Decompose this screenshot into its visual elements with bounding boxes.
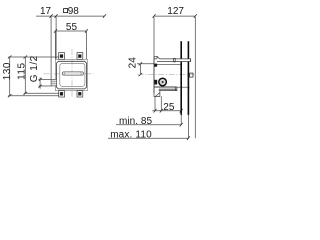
extension line 127 right long (194, 17, 196, 138)
dimension 127 line (154, 15, 195, 17)
svg-text:55: 55 (66, 22, 78, 33)
dimension min85 line (116, 124, 181, 126)
tick min85 right (180, 123, 183, 127)
tab bottom-right inner (78, 92, 81, 95)
tab top-right inner (78, 54, 81, 57)
extension line top shared (8, 56, 59, 58)
extension line frame left (54, 31, 56, 59)
tick 55 right (85, 29, 88, 33)
svg-text:25: 25 (163, 102, 175, 113)
extension line hex top (39, 78, 52, 80)
svg-text:115: 115 (17, 62, 28, 79)
hex connector G half (51, 79, 57, 86)
dimension chain 17 / sq98 line (36, 15, 105, 17)
top port boss lower edge (157, 64, 181, 66)
extension line 24 top port (137, 63, 154, 65)
tick 98 right (103, 14, 106, 18)
body box chamfered (57, 61, 87, 89)
top port tube through wall (157, 56, 191, 62)
tab bottom-right outer (77, 91, 83, 97)
svg-text:127: 127 (167, 6, 184, 17)
tick 17 left hex tip (50, 14, 53, 18)
dimension 25 line (152, 110, 181, 112)
tick max110 right (187, 136, 190, 140)
tab bottom-left outer (59, 91, 65, 97)
hex flat edge 1 (51, 81, 57, 83)
dimension 130 line (9, 57, 11, 96)
dimension 55 line (55, 30, 86, 32)
tick 127 left (153, 14, 156, 18)
foot wedge (155, 93, 160, 97)
G tick top (39, 78, 42, 81)
tick 25 left (160, 109, 163, 113)
svg-text:130: 130 (2, 62, 13, 80)
knob screw on plate (190, 73, 193, 77)
svg-text:24: 24 (128, 57, 139, 69)
extension wall A down (180, 115, 182, 125)
G tick bottom (39, 85, 42, 88)
svg-text:17: 17 (40, 6, 52, 17)
screw head circle (159, 78, 167, 86)
wall line B plate (187, 41, 189, 115)
svg-text:G 1/2: G 1/2 (29, 55, 40, 82)
extension line 127 left to body (153, 17, 155, 56)
extension wall B down (187, 115, 189, 138)
dimension max110 line (108, 137, 188, 139)
tick 130 top (8, 56, 12, 59)
svg-text:max. 110: max. 110 (110, 130, 152, 141)
tick 115 bottom (24, 92, 28, 95)
tick 115 top (24, 56, 28, 59)
front view valve assembly (51, 53, 87, 97)
bottom port end cap (175, 87, 177, 91)
centerline vertical front view (71, 49, 73, 98)
bottom port tube top edge (154, 86, 177, 88)
face black lug lower (154, 80, 157, 85)
tab top-left outer (59, 53, 65, 60)
face black lug upper (154, 64, 157, 67)
body front face (153, 56, 155, 92)
foot profile (154, 91, 160, 97)
extension line chain to frame left (55, 17, 57, 59)
top stub step (154, 56, 157, 59)
dimension 24 line (139, 64, 141, 75)
hex flat edge 2 (51, 83, 57, 85)
body inner rounded square (60, 63, 85, 86)
svg-text:min. 85: min. 85 (119, 116, 153, 127)
G thread dim line (39, 78, 41, 89)
extension line 25 from face (154, 97, 156, 111)
wall line A (180, 41, 182, 115)
tab bottom-left inner (60, 92, 63, 95)
slot end tick right (80, 72, 82, 75)
tab top-right outer (77, 53, 83, 60)
tick 17 right 98 left shared (55, 14, 58, 18)
extension line chain to hex tip (50, 17, 52, 79)
frame outer rect (55, 59, 87, 90)
centerline horizontal front view (44, 73, 94, 75)
svg-text:98: 98 (68, 6, 80, 17)
tick 25 mid (154, 109, 157, 113)
tick 25 right (180, 109, 183, 113)
centerline horizontal side view (138, 74, 197, 76)
tick 24 bottom (139, 73, 143, 76)
slot (62, 72, 83, 75)
tick 130 bottom (8, 94, 12, 97)
slot end tick left (64, 72, 66, 75)
bottom port tube bottom edge (159, 90, 177, 92)
tick 55 left (54, 29, 57, 33)
tick 127 right (194, 14, 197, 18)
screw center dot (162, 81, 164, 83)
side view body (154, 56, 189, 96)
extension line 25 from foot (160, 96, 162, 110)
extension line bottom 115 (24, 92, 59, 94)
bottom port tube mid edge (159, 88, 177, 90)
tick 24 top (139, 62, 143, 65)
tab top-left inner (60, 54, 63, 57)
extension line frame right (85, 31, 87, 59)
text square 98 symbol (64, 9, 68, 13)
extension line hex bottom (39, 85, 52, 87)
dimension 115 line (24, 57, 26, 93)
extension line bottom 130 (8, 95, 59, 97)
